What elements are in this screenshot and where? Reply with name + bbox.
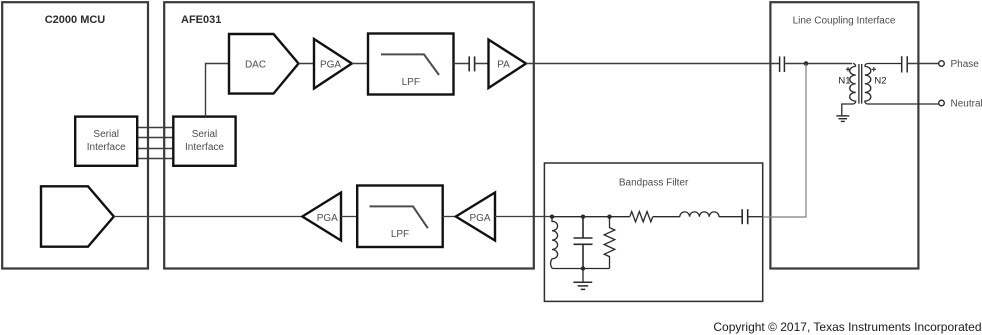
transformer T1 winding N1 (842, 64, 856, 116)
svg-text:PGA: PGA (317, 213, 338, 224)
wire LPF to capacitor (TX) (454, 63, 470, 65)
wire ADC to PGA (RX) (114, 216, 302, 218)
svg-text:Copyright © 2017, Texas Instru: Copyright © 2017, Texas Instruments Inco… (713, 320, 981, 334)
wire capacitor to transformer N1 (784, 63, 852, 65)
svg-text:Phase: Phase (951, 59, 980, 70)
polarity dot + N1 (846, 67, 851, 72)
LPF box (RX) (357, 186, 443, 248)
svg-text:Neutral: Neutral (951, 98, 982, 109)
wire R2 to L2 (653, 216, 680, 218)
svg-text:PA: PA (497, 59, 510, 70)
wire LPF to PGA2 (RX) (443, 216, 456, 218)
node junction TX/RX (804, 61, 809, 66)
wire PGA to LPF (RX) (341, 216, 357, 218)
svg-text:PGA: PGA (469, 213, 490, 224)
capacitor (line coupling, TX side) (780, 56, 785, 72)
wire C2 to line coupling node (748, 216, 763, 218)
svg-text:LPF: LPF (391, 229, 409, 240)
svg-text:N1: N1 (838, 76, 850, 87)
bandpass bottom wire (553, 268, 610, 270)
LPF response curve (RX) (370, 206, 428, 228)
svg-text:Line Coupling Interface: Line Coupling Interface (793, 15, 896, 26)
svg-text:Serial: Serial (192, 129, 218, 140)
svg-text:Serial: Serial (93, 129, 119, 140)
terminal Phase (939, 61, 945, 67)
wire node down to bandpass filter output (763, 64, 806, 218)
block Line Coupling Interface box (770, 2, 918, 268)
wire PA to line coupling capacitor (TX) (526, 63, 780, 65)
block AFE031 box (164, 2, 534, 268)
series resistor R2 (630, 212, 653, 222)
bandpass main wire (552, 216, 630, 218)
series inductor L2 (680, 212, 719, 217)
PGA amplifier (RX input, points left) (456, 193, 495, 241)
series capacitor C2 (742, 209, 748, 224)
wire serial interface to DAC (206, 64, 230, 117)
ground symbol (bandpass) (582, 269, 584, 282)
node B (shunt C) (581, 215, 585, 219)
PA power amplifier (489, 40, 527, 88)
node D (ground node) (581, 266, 585, 270)
shunt inductor L1 (551, 217, 558, 269)
transformer T1 winding N2 (865, 64, 939, 105)
svg-text:Interface: Interface (87, 142, 126, 153)
transformer core (859, 64, 862, 104)
node C (shunt R) (607, 215, 611, 219)
wire DAC to PGA (TX) (299, 63, 315, 65)
PGA amplifier (TX) (314, 39, 352, 89)
svg-text:DAC: DAC (245, 59, 266, 70)
wire capacitor to PA (475, 63, 489, 65)
block Bandpass Filter box (544, 163, 762, 301)
LPF response curve (TX) (381, 54, 439, 75)
shunt resistor R1 (604, 217, 615, 269)
shunt capacitor C1 (574, 217, 593, 269)
wire L2 to C2 (719, 216, 742, 218)
svg-text:LPF: LPF (402, 77, 420, 88)
ground symbol (transformer N1) (836, 116, 849, 122)
wire PGA to LPF (TX) (352, 63, 368, 65)
serial interface box (AFE031) (173, 117, 235, 166)
capacitor (line coupling, phase side) (902, 56, 908, 72)
svg-text:AFE031: AFE031 (181, 14, 221, 26)
ADC pentagon (C2000) (41, 186, 114, 246)
wire capacitor to phase terminal (907, 63, 939, 65)
LPF box (TX) (368, 34, 454, 95)
serial bus wires (4) between MCU and AFE serial interfaces (137, 128, 174, 159)
PGA amplifier (RX output, points left) (302, 193, 341, 241)
svg-text:N2: N2 (874, 76, 886, 87)
capacitor C (TX coupling) (469, 56, 474, 71)
terminal Neutral (939, 100, 945, 106)
node A (shunt L) (550, 215, 554, 219)
polarity dot + N2 (872, 67, 877, 72)
wire N2 top to capacitor (868, 63, 902, 65)
svg-text:PGA: PGA (320, 59, 341, 70)
block C2000 MCU box (2, 2, 148, 268)
DAC pentagon U-DAC (229, 34, 299, 94)
wire PGA2 to bandpass filter (495, 216, 552, 218)
svg-text:Bandpass Filter: Bandpass Filter (619, 178, 689, 189)
serial interface box (C2000) (75, 117, 137, 166)
svg-text:Interface: Interface (185, 142, 224, 153)
svg-text:C2000 MCU: C2000 MCU (45, 14, 106, 26)
